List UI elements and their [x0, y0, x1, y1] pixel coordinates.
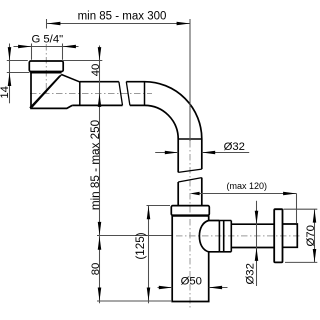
centerline inlet vertical	[45, 44, 47, 96]
arrow G5/4 right	[63, 45, 76, 49]
arrow 40 bottom / min250 top	[98, 94, 102, 107]
arrow max120 right	[283, 192, 296, 196]
dim min85-max300 ext right	[189, 19, 191, 141]
centerline vertical pipe	[189, 141, 191, 309]
arrow O50 left	[159, 286, 172, 290]
elbow seam diagonal 1	[32, 75, 62, 108]
arrow right min85-max300	[177, 22, 190, 26]
centerline horizontal pipe	[30, 93, 152, 95]
dim 125 ext top	[147, 205, 171, 207]
svg-text:40: 40	[90, 64, 102, 77]
ext cup bottom to 80 dim	[97, 300, 171, 302]
arrow min250 bottom	[98, 222, 102, 235]
wall flange	[274, 209, 282, 262]
arrow O50 right	[209, 286, 222, 290]
vertical pipe upper segment	[178, 139, 202, 172]
dim min85-max300 ext left	[46, 19, 48, 29]
arrow 40 top	[98, 47, 102, 60]
outlet pipe	[231, 224, 274, 247]
dim max120 ext right	[296, 194, 298, 224]
inlet nut G5/4	[29, 61, 63, 72]
arrow O70 top	[313, 209, 317, 222]
dim max120 line	[196, 193, 297, 195]
centerline outlet horizontal	[176, 235, 301, 237]
svg-text:14: 14	[0, 86, 11, 99]
dim 14 ext lines	[7, 61, 30, 73]
outlet ring and nut	[219, 221, 231, 252]
svg-text:Ø70: Ø70	[305, 225, 317, 246]
pipe break lines	[119, 82, 130, 106]
joint pipe to bend	[144, 82, 146, 106]
trap nut thick bottom	[172, 214, 210, 216]
svg-text:min 85 - max 250: min 85 - max 250	[89, 119, 102, 210]
elbow miter slant	[61, 75, 79, 82]
arrow 80 bottom	[98, 288, 102, 301]
arrow O32 lower top	[255, 211, 259, 224]
arrow 125 bottom	[147, 288, 151, 301]
dim O70 ext lines	[284, 209, 318, 262]
dim O32 upper left line	[155, 152, 178, 154]
dim O70 line	[314, 209, 316, 262]
horizontal pipe bottom edge	[72, 104, 144, 106]
svg-text:(125): (125)	[134, 232, 147, 259]
joint bend to vertical pipe	[178, 138, 202, 140]
ext nut top to 40 dim	[63, 60, 103, 62]
dim min85-max300 line	[47, 23, 190, 25]
joint elbow to pipe	[79, 82, 81, 106]
arrow max120 left	[190, 192, 200, 196]
arrow O32 upper left	[165, 151, 178, 155]
dim O50 lines	[158, 287, 228, 289]
arrow O32 lower bottom	[255, 248, 259, 261]
wall stub pipe	[283, 224, 298, 247]
elbow body top thick edge	[30, 71, 61, 73]
bend inner arc	[145, 105, 179, 139]
dim 14 line	[9, 44, 11, 104]
arrow 125 top	[147, 206, 151, 219]
vertical pipe lower segment	[178, 178, 202, 206]
svg-text:min 85 - max 300: min 85 - max 300	[78, 11, 167, 23]
arrow 80 top	[98, 236, 102, 249]
arrow 14 bottom	[8, 73, 12, 86]
svg-text:Ø32: Ø32	[224, 141, 245, 153]
arrow O32 upper right	[202, 151, 215, 155]
ext outlet centerline to 80 dim	[97, 235, 172, 237]
svg-text:(max 120): (max 120)	[227, 181, 268, 191]
svg-text:Ø50: Ø50	[181, 275, 202, 287]
trap cup	[172, 216, 209, 302]
elbow seam diagonal 2	[30, 76, 60, 108]
bend outer arc	[145, 82, 202, 139]
svg-text:80: 80	[90, 263, 102, 276]
elbow body	[31, 72, 72, 108]
svg-text:G 5/4": G 5/4"	[31, 34, 63, 46]
dim O32 lower line	[256, 201, 258, 286]
dim 125 line	[148, 206, 150, 303]
outlet bullet nose	[199, 221, 219, 252]
arrow 14 top	[8, 47, 12, 60]
dim O32 upper right line	[202, 152, 249, 154]
horizontal pipe top edge	[80, 81, 145, 83]
svg-text:Ø32: Ø32	[245, 263, 257, 284]
vertical pipe break lines	[178, 169, 202, 182]
arrow left min85-max300	[47, 22, 60, 26]
dim 40/min85-max250/80 shared line	[99, 46, 101, 304]
arrow O70 bottom	[313, 249, 317, 262]
dim G5/4 ext lines	[32, 44, 63, 60]
arrow G5/4 left	[18, 45, 31, 49]
trap nut	[171, 206, 209, 216]
dim G5/4 line	[14, 46, 79, 48]
